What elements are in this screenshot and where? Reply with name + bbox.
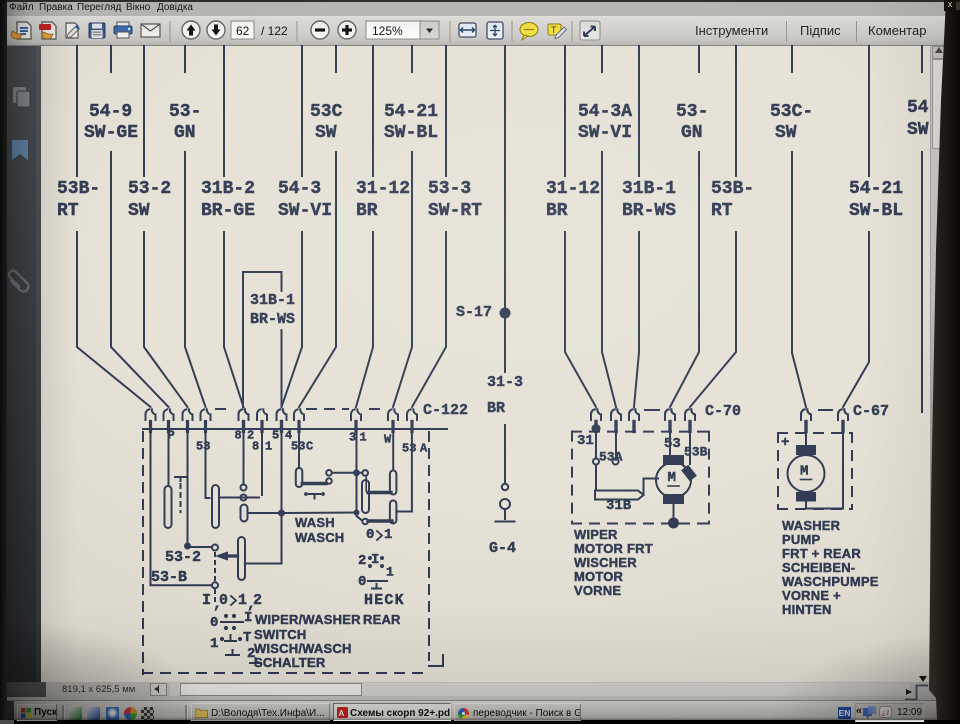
connector halves to G-4: [502, 484, 508, 490]
wire 53- GN: [698, 46, 700, 72]
svg-text:BR: BR: [487, 400, 505, 417]
detent dots: [214, 553, 216, 581]
wire 53C SW: [335, 46, 337, 72]
wire 53-B: [150, 429, 152, 585]
pin C-122 terminal 81: [257, 409, 261, 420]
svg-text:31-12: 31-12: [546, 179, 600, 199]
svg-text:A: A: [420, 442, 428, 456]
connector C-122 dashed line: [216, 408, 233, 410]
wire 31B-2 BR-GE: [223, 46, 225, 176]
svg-text:54-9: 54-9: [89, 102, 132, 122]
svg-text:C-67: C-67: [853, 403, 889, 420]
svg-text:WISCH/WASCH: WISCH/WASCH: [254, 641, 352, 656]
svg-text:VORNE +: VORNE +: [782, 588, 841, 603]
svg-text:FRT + REAR: FRT + REAR: [782, 546, 861, 561]
svg-text:31-3: 31-3: [487, 374, 523, 391]
contact 53-2: [191, 546, 212, 548]
wire 31B-1 BR-WS bracket: [243, 272, 282, 407]
fit width icon: [459, 23, 476, 37]
svg-text:¿1: ¿1: [882, 710, 890, 717]
wire from pin to 53-2 node: [187, 429, 189, 544]
wire 53-2 SW: [143, 46, 145, 176]
wire 53B- RT: [735, 46, 737, 176]
contact P: [165, 486, 172, 528]
contact 53 bar: [212, 485, 219, 528]
svg-text:W: W: [384, 433, 392, 447]
junction: [354, 510, 360, 516]
svg-text:2: 2: [253, 592, 262, 609]
svg-text:BR-WS: BR-WS: [250, 311, 295, 328]
washer pump box dashed: [778, 432, 852, 434]
open icon: [11, 22, 31, 39]
svg-text:G-4: G-4: [489, 540, 516, 557]
link to 31 node: [332, 472, 362, 474]
zoom box: [366, 21, 420, 39]
wiper motor box dashed: [572, 431, 709, 433]
wire 31-3 BR (splice S-17): [504, 46, 506, 307]
switch box top edge: [143, 428, 447, 430]
contact bar rear: [362, 480, 369, 513]
edit icon: [66, 23, 79, 38]
svg-text:T: T: [243, 630, 251, 646]
junction dot 31: [592, 424, 601, 433]
svg-text:C: C: [306, 440, 313, 454]
wire 53C: [298, 429, 300, 468]
task buttons: [191, 703, 330, 721]
svg-text:C-70: C-70: [705, 403, 741, 420]
svg-text:M: M: [800, 464, 808, 480]
svg-text:53B: 53B: [684, 444, 708, 459]
svg-text:GN: GN: [681, 123, 703, 143]
wire 53A motor: [615, 432, 617, 458]
pin C-122 terminal 82: [238, 409, 242, 420]
connector C-67 pins: [801, 409, 805, 420]
svg-text:SWITCH: SWITCH: [254, 627, 306, 642]
contact 53C oval: [296, 468, 303, 487]
status bar: [0, 682, 960, 700]
park switch cam: [595, 491, 644, 500]
comment bubble icon: [520, 23, 538, 41]
svg-text:C-122: C-122: [423, 402, 468, 419]
quick launch icons: [69, 707, 82, 720]
print icon: [114, 22, 132, 38]
svg-text:WASH: WASH: [295, 515, 335, 530]
wire 54: [281, 429, 283, 512]
wire 31-12 BR: [564, 46, 566, 176]
svg-text:31B-1: 31B-1: [250, 292, 295, 309]
motor ground wire: [673, 504, 675, 519]
svg-text:SW-VI: SW-VI: [578, 123, 632, 143]
wire 53- GN: [184, 46, 186, 72]
start button: [17, 704, 57, 721]
wire 53B: [689, 432, 691, 464]
fullscreen icon: [580, 21, 600, 40]
park link to motor: [644, 479, 659, 496]
svg-text:M: M: [668, 470, 676, 486]
navigation sidebar: [0, 46, 41, 682]
svg-text:53-B: 53-B: [151, 569, 187, 586]
motor bottom brush: [663, 494, 684, 504]
svg-text:53: 53: [664, 436, 681, 452]
fit page icon: [487, 22, 503, 39]
svg-text:2: 2: [358, 553, 366, 569]
svg-text:0: 0: [210, 615, 218, 631]
svg-text:5: 5: [272, 429, 279, 443]
detent mark: [309, 493, 320, 495]
wire 31-12 BR: [372, 46, 374, 176]
wire 31B-1 BR-WS: [638, 46, 640, 176]
contact W bar: [390, 471, 397, 495]
wire 54-21 SW-BL: [411, 46, 413, 72]
svg-text:+: +: [781, 435, 789, 451]
svg-text:MOTOR: MOTOR: [574, 569, 624, 584]
svg-text:SW-BL: SW-BL: [384, 123, 438, 143]
wire 31: [356, 429, 358, 470]
wire 31 to park contact: [595, 432, 597, 458]
wire P: [168, 429, 170, 486]
taskbar: [0, 700, 960, 720]
page number box: [231, 21, 254, 39]
svg-text:SW-BL: SW-BL: [849, 201, 903, 221]
svg-text:BR-GE: BR-GE: [201, 201, 255, 221]
svg-text:SW: SW: [128, 201, 150, 221]
wire 54- SW- (right edge): [921, 46, 923, 72]
wire 82 end contact: [243, 429, 245, 484]
svg-text:PUMP: PUMP: [782, 532, 820, 547]
wire 54-3A SW-VI: [601, 46, 603, 72]
rear wipe arm: [368, 491, 391, 494]
svg-text:53B-: 53B-: [57, 179, 100, 199]
junction dot motor ground: [668, 518, 679, 529]
wire 54-21 SW-BL: [868, 46, 870, 176]
svg-text:SW-VI: SW-VI: [278, 201, 332, 221]
wire 53: [206, 429, 210, 498]
main link line: [248, 512, 279, 514]
pump brush top: [796, 445, 816, 455]
svg-text:53-2: 53-2: [165, 549, 201, 566]
svg-text:BR-WS: BR-WS: [622, 201, 676, 221]
svg-text:WASCHPUMPE: WASCHPUMPE: [782, 574, 879, 589]
svg-text:53C: 53C: [310, 102, 343, 122]
svg-text:RT: RT: [57, 201, 79, 221]
svg-text:SW-GE: SW-GE: [84, 123, 138, 143]
svg-text:0: 0: [358, 574, 366, 590]
ground G-4: [496, 521, 515, 523]
svg-text:54-21: 54-21: [849, 179, 903, 199]
svg-text:S-17: S-17: [456, 304, 492, 321]
wire 54-3 SW-VI: [301, 46, 303, 176]
rear wash arm: [368, 519, 392, 522]
brush 53B diagonal: [681, 465, 697, 482]
wire to 54 node: [245, 516, 282, 564]
application menu bar: [0, 0, 960, 16]
svg-text:HINTEN: HINTEN: [782, 602, 832, 617]
svg-text:SW: SW: [775, 123, 797, 143]
svg-text:3: 3: [349, 431, 356, 445]
left bezel shadow column: [0, 0, 7, 720]
svg-text:I: I: [202, 592, 211, 609]
zoom out icon: [311, 21, 329, 39]
svg-text:WASCH: WASCH: [295, 530, 344, 545]
svg-text:1: 1: [384, 527, 392, 543]
svg-text:54-21: 54-21: [384, 102, 438, 122]
svg-text:RT: RT: [711, 201, 733, 221]
svg-text:I: I: [244, 610, 252, 626]
wire 53A: [411, 429, 413, 512]
svg-text:SCHALTER: SCHALTER: [254, 655, 326, 670]
tray: [838, 707, 851, 719]
wiper motor M front: [656, 463, 691, 498]
svg-text:HECK: HECK: [364, 592, 405, 609]
pump return wire: [806, 429, 843, 509]
vertical scrollbar: [930, 46, 945, 682]
svg-text:31-12: 31-12: [356, 179, 410, 199]
svg-text:8: 8: [252, 440, 259, 454]
svg-text:53: 53: [402, 442, 416, 456]
svg-text:SCHEIBEN-: SCHEIBEN-: [782, 560, 855, 575]
svg-text:SW: SW: [315, 123, 337, 143]
splice S-17: [500, 308, 511, 319]
top-left dark corner: [0, 0, 960, 2]
email icon: [141, 24, 160, 37]
svg-text:31B-1: 31B-1: [622, 179, 676, 199]
doc with red banner icon: [39, 22, 56, 39]
svg-text:53: 53: [196, 440, 210, 454]
svg-text:53-: 53-: [169, 102, 201, 122]
svg-text:WISCHER: WISCHER: [574, 555, 637, 570]
wire 53-3 SW-RT: [445, 46, 447, 176]
moving contact arrow: [218, 553, 227, 559]
pump brush bottom: [796, 492, 816, 502]
contact bar front wiper: [238, 537, 245, 580]
save icon: [89, 23, 105, 38]
wire 53C- SW: [791, 46, 793, 72]
wire 53 to brush: [669, 432, 671, 455]
page down icon: [207, 21, 225, 39]
svg-text:53-2: 53-2: [128, 179, 171, 199]
svg-text:I: I: [371, 552, 379, 568]
svg-text:53-3: 53-3: [428, 179, 471, 199]
svg-text:8: 8: [235, 429, 242, 443]
svg-text:31B: 31B: [606, 498, 632, 514]
svg-text:WASHER: WASHER: [782, 518, 841, 533]
link to 53A: [397, 511, 412, 513]
svg-text:0: 0: [366, 527, 374, 543]
wire W: [392, 429, 394, 471]
wire 81: [261, 429, 263, 495]
text note icon: [548, 24, 567, 39]
contact bar rear lower: [390, 501, 397, 524]
svg-text:53-: 53-: [676, 102, 708, 122]
svg-text:53C-: 53C-: [770, 102, 813, 122]
zoom in icon: [338, 21, 356, 39]
contact arm 53C: [302, 482, 326, 485]
svg-text:A: A: [339, 709, 345, 718]
motor M front brush top: [663, 455, 684, 465]
svg-text:1: 1: [386, 564, 394, 579]
linkage T mark: [175, 476, 186, 478]
wire 54-9 SW-GE: [110, 46, 112, 72]
svg-text:54-3: 54-3: [278, 179, 321, 199]
svg-text:31: 31: [577, 433, 594, 449]
washer pump motor M: [788, 455, 825, 492]
wash contact oval: [241, 505, 248, 522]
svg-text:53B-: 53B-: [711, 179, 754, 199]
svg-text:BR: BR: [546, 201, 568, 221]
svg-text:MOTOR FRT: MOTOR FRT: [574, 541, 653, 556]
svg-text:54-3A: 54-3A: [578, 102, 632, 122]
svg-text:VORNE: VORNE: [574, 583, 621, 598]
switch box corner: [429, 655, 443, 666]
svg-text:1: 1: [238, 592, 247, 609]
pin C-122 terminal 54: [276, 409, 280, 420]
page up icon: [182, 21, 200, 39]
connector C-70 pins: [591, 409, 595, 420]
svg-text:BR: BR: [356, 201, 378, 221]
svg-text:REAR: REAR: [363, 612, 401, 627]
toolbar: [0, 16, 960, 46]
wire to ground G-4: [504, 425, 506, 482]
wire to pump: [805, 429, 807, 445]
svg-text:WIPER: WIPER: [574, 527, 618, 542]
svg-text:GN: GN: [174, 123, 196, 143]
svg-text:0: 0: [219, 592, 228, 609]
switch box dashed border: [142, 432, 144, 674]
svg-text:WIPER/WASHER: WIPER/WASHER: [255, 612, 361, 627]
wire 53B- RT: [76, 46, 78, 176]
svg-text:53A: 53A: [599, 449, 623, 464]
svg-text:31B-2: 31B-2: [201, 179, 255, 199]
contact arm 53 to 81: [219, 497, 259, 499]
svg-text:SW-RT: SW-RT: [428, 201, 482, 221]
svg-text:1: 1: [360, 431, 367, 445]
svg-text:1: 1: [210, 636, 218, 652]
